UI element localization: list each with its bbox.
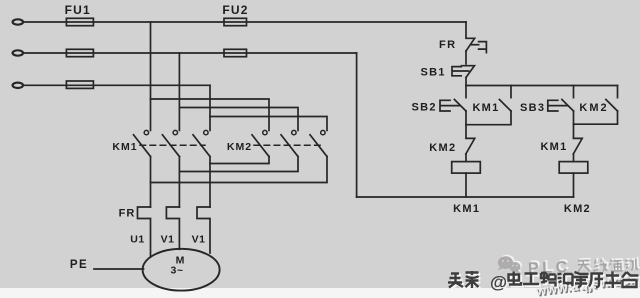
white strip bottom [0,288,640,298]
wire SB3 branch top [573,86,575,98]
contactor KM2 main contact 3 [310,130,327,156]
svg-text:SB1: SB1 [421,66,446,78]
contact KM1 auxiliary NO [499,100,511,112]
wire KM1 aux branch bottom [466,111,511,125]
wire SB3 down through junction [573,111,575,138]
fuse FU1 pole1 [66,18,93,25]
svg-text:SB3: SB3 [520,102,545,114]
fuse FU1 pole2 [66,49,93,56]
wire control return from L2 [356,53,358,197]
svg-text:FR: FR [119,207,136,219]
wire SB1 to rail [465,77,467,85]
svg-text:KM2: KM2 [564,203,591,215]
wire L3 phase line [23,84,210,86]
terminal L3 [13,83,23,88]
KM2 linkage dashed line [254,144,322,146]
coil KM1 [452,162,481,174]
svg-text:FU1: FU1 [65,3,91,17]
wire KM2 output 3 to U column [151,157,328,183]
wire control feed drop [465,22,467,37]
wire V column lower [178,157,180,208]
motor M circle [143,249,220,291]
contactor KM1 main contact 1 [134,130,151,156]
svg-text:SB2: SB2 [412,102,437,114]
contactor KM1 main contact 3 [193,130,210,156]
wire W column upper (L3 drop to KM1 contact 3) [209,85,211,130]
wire SB2 branch top [465,86,467,98]
terminal L2 [13,50,23,55]
wire control rail [466,85,618,87]
wire KM2 coil to bottom rail [573,173,575,197]
wire W column lower [209,157,211,208]
svg-text:V1: V1 [192,234,206,246]
wire SB2 down through junction [465,111,467,138]
wire U column upper (L1 drop to KM1 contact 1) [150,22,152,130]
wire jog L1 to KM2 contact 1 [151,99,270,130]
thermal relay FR heater 1 [138,207,151,256]
wire KM2 aux branch top [617,86,619,98]
wire to KM1 coil [465,154,467,162]
svg-text:3~: 3~ [171,264,184,276]
contact KM2 auxiliary NO [606,100,618,112]
fuse FU2 pole1 [224,18,247,25]
contact KM1 NC interlock [573,138,582,154]
fuse FU2 pole2 [224,49,247,56]
svg-text:KM1: KM1 [540,141,567,153]
watermark wechat icon [499,255,522,272]
svg-text:U1: U1 [130,234,144,246]
fuse FU1 pole3 [66,81,93,88]
wire L1 phase line [23,21,466,23]
KM1 linkage dashed line [140,144,205,146]
wire jog L3 to KM2 contact 3 [210,117,327,131]
wire KM1 coil to bottom rail [465,173,467,197]
svg-text:PE: PE [70,259,88,271]
wire L2 phase line [23,52,357,54]
thermal relay FR heater 3 [197,207,210,253]
wire V column upper (L2 drop to KM1 contact 2) [178,53,180,130]
wire KM2 output 1 to W column [210,157,269,164]
wire U column lower [150,157,152,208]
thermal relay FR NC contact [466,38,486,52]
svg-text:V1: V1 [161,234,175,246]
contactor KM2 main contact 1 [252,130,269,156]
pushbutton SB2 (NO start) [440,100,466,112]
svg-text:KM1: KM1 [112,141,137,153]
svg-text:FR: FR [439,39,457,51]
watermark url [534,268,640,298]
wire KM2 aux branch bottom [574,111,618,124]
contact KM2 NC interlock [466,138,475,154]
contactor KM2 main contact 2 [281,130,298,156]
watermark headline 头条@电工知识学习平台 [448,271,640,294]
terminal L1 [13,19,23,24]
wire PE [94,268,144,270]
wire KM1 aux branch top [510,86,512,98]
svg-text:KM1: KM1 [472,102,499,114]
svg-text:KM2: KM2 [227,141,252,153]
wire KM2 output 2 to V column [179,157,298,172]
svg-text:KM1: KM1 [453,203,480,215]
svg-text:KM2: KM2 [579,102,608,114]
wire FR to SB1 [465,51,467,64]
svg-text:FU2: FU2 [222,3,248,17]
thermal relay FR heater 2 [166,207,179,249]
pushbutton SB1 (NC stop) [452,66,474,78]
svg-text:KM2: KM2 [429,142,456,154]
coil KM2 [559,162,588,174]
wire jog L2 to KM2 contact 2 [179,108,298,131]
contactor KM1 main contact 2 [162,130,179,156]
wire control bottom rail [357,196,574,198]
watermark PLC text [528,255,640,278]
wire to KM2 coil [573,154,575,162]
pushbutton SB3 (NO start) [548,100,574,112]
